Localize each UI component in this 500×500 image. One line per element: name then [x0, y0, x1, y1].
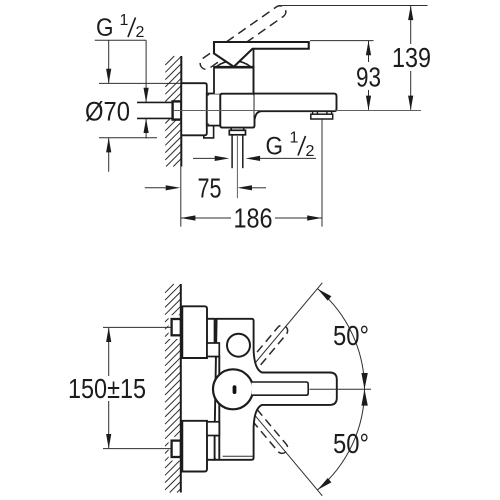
cartridge housing: [214, 67, 254, 94]
svg-text:1: 1: [120, 12, 129, 29]
inner step line near column bottom: [223, 455, 253, 457]
handle inner slot: [252, 382, 309, 395]
main body block: [220, 94, 254, 128]
svg-text:75: 75: [198, 173, 222, 204]
Ø70 dimension: [99, 82, 181, 84]
vertical centerline of shower outlet pipe: [236, 136, 238, 198]
svg-text:2: 2: [136, 24, 145, 41]
svg-text:2: 2: [306, 143, 315, 160]
white gap for supply pipe through hatch: [160, 102, 180, 118]
union nut bottom (behind wall): [172, 441, 181, 457]
150±15 dimension: [103, 326, 172, 328]
dashed ghost handle lower (-50): [242, 402, 287, 454]
wall face line (bottom view): [180, 284, 182, 493]
supply pipe nut: [173, 101, 182, 119]
white clearance around union nuts: [169, 315, 181, 339]
connection stub top: [207, 343, 219, 357]
cartridge dome arc: [216, 61, 251, 67]
svg-text:50°: 50°: [333, 428, 369, 459]
50 degree rays: [246, 283, 322, 374]
shower outlet stub: [230, 128, 232, 131]
back plate edge segments at column top and bottom: [207, 318, 215, 320]
50 degree arc: [318, 289, 365, 490]
connector between escutcheon and body: [207, 94, 221, 126]
svg-text:G: G: [266, 133, 284, 161]
horizontal centerline right of handle: [310, 388, 372, 390]
shower outlet pipe: [231, 135, 233, 168]
escutcheon (wall flange): [181, 83, 207, 135]
union nut top (behind wall): [172, 319, 181, 335]
svg-text:50°: 50°: [333, 320, 369, 351]
escutcheon bottom lip: [204, 126, 214, 138]
connection stub bottom: [207, 422, 219, 436]
186 dimension: [321, 120, 323, 227]
shower outlet circle: [227, 334, 250, 357]
svg-text:139: 139: [392, 42, 431, 73]
supply pipe through wall: [137, 102, 173, 118]
G1/2 outlet dimension (horizontal): [193, 157, 215, 159]
spout: [255, 94, 337, 119]
wall hatching (top view): [165, 56, 181, 167]
svg-text:Ø70: Ø70: [85, 97, 130, 127]
arc arrowheads: [318, 289, 332, 301]
mounting block top (S-union): [182, 306, 207, 358]
mousseur under spout tip: [311, 114, 333, 119]
wall hatching (bottom view): [165, 284, 181, 493]
G1/2 leader underline: [95, 39, 146, 41]
connector chamfer marks: [207, 94, 210, 97]
svg-text:G: G: [96, 14, 114, 42]
svg-text:1: 1: [290, 130, 299, 147]
wall face line (top view): [180, 56, 182, 167]
mounting block bottom (S-union): [182, 421, 207, 472]
shower outlet collar nut: [229, 130, 245, 135]
svg-text:150±15: 150±15: [68, 373, 146, 404]
keyhole mark: [233, 385, 237, 394]
dashed ghost handle upper (+50): [242, 325, 287, 377]
93 dimension: [310, 40, 374, 42]
G1/2 pipe dimension line (vertical): [145, 40, 147, 102]
wall extension line down to 186 dim: [180, 167, 182, 227]
svg-text:186: 186: [234, 203, 273, 234]
75 dimension: [145, 187, 166, 189]
lever handle (solid): [214, 42, 309, 67]
housing right edge up behind lever: [253, 49, 255, 94]
svg-text:93: 93: [356, 62, 381, 93]
body column with handle arm: [215, 319, 337, 460]
horizontal centerline through body and spout: [174, 110, 421, 112]
pivot circle: [213, 369, 253, 409]
139 dimension: [282, 5, 428, 7]
dashed raised lever (ghost): [198, 3, 288, 71]
